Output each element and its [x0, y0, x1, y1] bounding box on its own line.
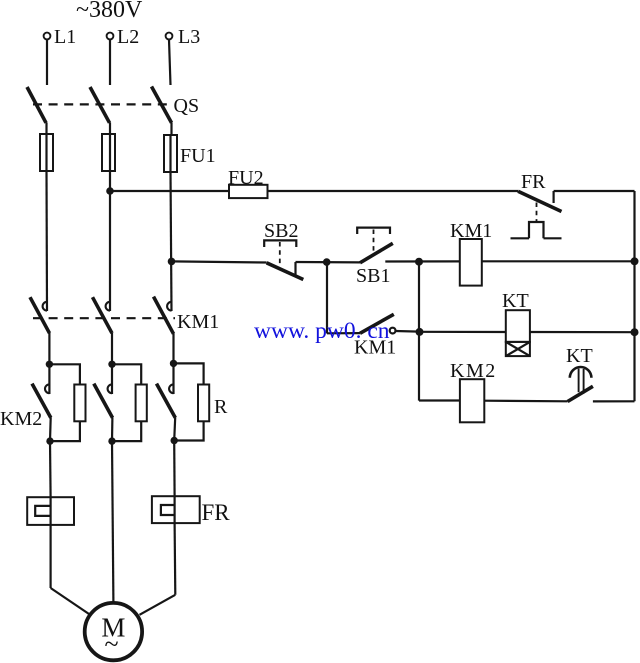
svg-text:FU2: FU2: [228, 167, 264, 189]
svg-text:KM1: KM1: [450, 220, 492, 242]
svg-text:FR: FR: [202, 500, 231, 525]
svg-text:R: R: [214, 396, 228, 418]
svg-text:KM2: KM2: [0, 408, 42, 430]
svg-text:~: ~: [104, 630, 118, 659]
svg-text:SB2: SB2: [264, 220, 298, 242]
svg-text:FU1: FU1: [180, 145, 216, 167]
svg-text:L3: L3: [178, 26, 200, 48]
svg-text:FR: FR: [521, 171, 546, 193]
svg-text:QS: QS: [174, 95, 200, 117]
svg-text:www. pw0. cn: www. pw0. cn: [254, 318, 390, 344]
svg-text:L2: L2: [117, 26, 139, 48]
svg-text:KM2: KM2: [450, 360, 497, 382]
svg-text:SB1: SB1: [356, 265, 390, 287]
svg-text:KM1: KM1: [177, 311, 219, 333]
svg-text:L1: L1: [54, 26, 76, 48]
svg-text:KT: KT: [502, 290, 529, 312]
svg-text:KT: KT: [566, 345, 593, 367]
svg-text:~380V: ~380V: [76, 0, 143, 23]
